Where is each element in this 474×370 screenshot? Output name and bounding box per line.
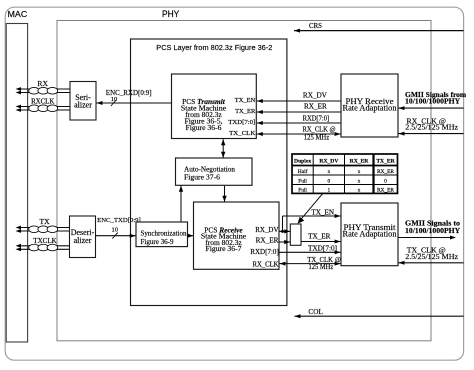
svg-text:RXD[7:0]: RXD[7:0]	[250, 249, 279, 256]
svg-text:TXD[7:0]: TXD[7:0]	[228, 119, 255, 126]
svg-text:RX_CLK @: RX_CLK @	[303, 126, 336, 134]
svg-text:0: 0	[328, 178, 331, 184]
svg-text:TXD[7:0]: TXD[7:0]	[308, 244, 337, 252]
svg-text:TX_ER: TX_ER	[235, 108, 256, 115]
svg-text:PCS Layer from 802.3z Figure 3: PCS Layer from 802.3z Figure 36-2	[156, 43, 272, 52]
svg-text:Duplex: Duplex	[294, 159, 311, 165]
svg-text:COL: COL	[308, 308, 323, 316]
svg-text:RX_CLK: RX_CLK	[253, 261, 279, 268]
svg-text:RX_ER: RX_ER	[377, 188, 394, 194]
svg-text:Figure 36-7: Figure 36-7	[206, 244, 242, 253]
svg-text:RX_ER: RX_ER	[304, 103, 327, 111]
svg-text:10: 10	[111, 96, 118, 103]
svg-text:0: 0	[384, 178, 387, 184]
svg-text:Rate Adaptation: Rate Adaptation	[343, 104, 398, 113]
svg-text:125 MHz: 125 MHz	[304, 134, 330, 142]
svg-text:alizer: alizer	[74, 100, 92, 109]
svg-text:1: 1	[328, 188, 331, 194]
svg-text:2.5/25/125 MHz: 2.5/25/125 MHz	[405, 252, 458, 261]
svg-text:Rate Adaptation: Rate Adaptation	[343, 230, 398, 239]
svg-text:Figure 36-9: Figure 36-9	[141, 238, 174, 246]
svg-text:x: x	[358, 178, 361, 184]
svg-text:2.5/25/125 MHz: 2.5/25/125 MHz	[405, 123, 458, 132]
svg-text:10/100/1000PHY: 10/100/1000PHY	[405, 97, 461, 106]
svg-text:PHY: PHY	[162, 9, 179, 19]
svg-text:Half: Half	[298, 168, 308, 175]
svg-text:TX_EN: TX_EN	[235, 97, 256, 104]
svg-text:CRS: CRS	[309, 22, 322, 30]
svg-text:x: x	[328, 169, 331, 175]
svg-text:RX_ER: RX_ER	[256, 237, 279, 244]
svg-text:RX_DV: RX_DV	[303, 91, 328, 99]
svg-text:ENC_TXD[0:9]: ENC_TXD[0:9]	[97, 217, 141, 224]
svg-text:RXD[7:0]: RXD[7:0]	[303, 114, 330, 122]
svg-text:Figure 37-6: Figure 37-6	[184, 173, 220, 182]
svg-text:RX_DV: RX_DV	[255, 227, 278, 234]
svg-text:RX_DV: RX_DV	[319, 159, 338, 165]
svg-text:Figure 36-6: Figure 36-6	[186, 123, 222, 132]
svg-text:TX_ER: TX_ER	[308, 233, 331, 241]
svg-text:Full: Full	[298, 178, 307, 184]
svg-text:125 MHz: 125 MHz	[309, 263, 334, 271]
svg-text:RXCLK: RXCLK	[31, 97, 54, 105]
svg-text:RX_ER: RX_ER	[377, 169, 394, 175]
svg-text:Synchronization: Synchronization	[141, 229, 187, 237]
svg-text:alizer: alizer	[74, 236, 92, 245]
svg-text:x: x	[358, 188, 361, 194]
svg-text:TX_EN: TX_EN	[311, 208, 335, 216]
svg-text:TX: TX	[39, 217, 50, 226]
svg-text:RX_ER: RX_ER	[350, 159, 370, 165]
svg-text:Full: Full	[298, 188, 307, 194]
svg-text:x: x	[358, 169, 361, 175]
svg-text:RX: RX	[37, 79, 48, 88]
svg-text:10/100/1000PHY: 10/100/1000PHY	[405, 226, 461, 235]
svg-text:TX_ER: TX_ER	[376, 159, 395, 165]
svg-text:TXCLK: TXCLK	[33, 237, 56, 245]
svg-text:10: 10	[111, 227, 118, 234]
svg-text:TX_CLK: TX_CLK	[229, 130, 255, 137]
svg-text:MAC: MAC	[8, 9, 28, 19]
